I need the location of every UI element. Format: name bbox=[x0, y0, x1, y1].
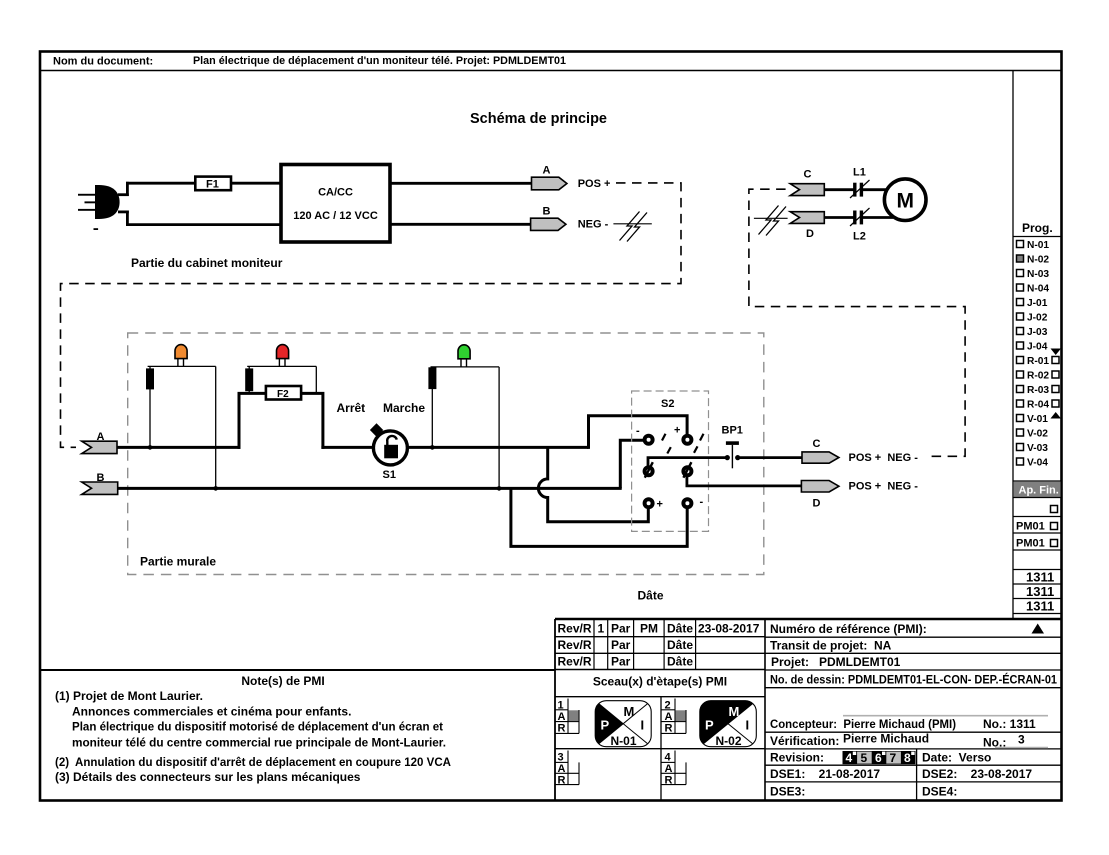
svg-text:B: B bbox=[543, 206, 551, 218]
right title block rows bbox=[765, 622, 1061, 800]
drawing title bbox=[470, 111, 607, 127]
svg-text:M: M bbox=[624, 704, 635, 719]
Prog checklist rows bbox=[1017, 240, 1062, 469]
wire CA/CC to connector B bbox=[390, 223, 531, 226]
svg-text:R-02: R-02 bbox=[1027, 371, 1049, 382]
svg-text:120 AC / 12 VCC: 120 AC / 12 VCC bbox=[293, 210, 378, 222]
svg-text:N-01: N-01 bbox=[1027, 240, 1049, 251]
svg-text:23-08-2017: 23-08-2017 bbox=[698, 622, 760, 636]
svg-text:BP1: BP1 bbox=[722, 425, 743, 437]
svg-text:Rev/R: Rev/R bbox=[558, 622, 592, 636]
Prog. side column bbox=[1013, 71, 1061, 620]
Ap. Fin. cell bbox=[1013, 481, 1061, 498]
svg-text:Nom du document:: Nom du document: bbox=[53, 56, 153, 68]
svg-text:V-02: V-02 bbox=[1027, 429, 1048, 440]
seal 2 mini grid bbox=[661, 699, 686, 735]
svg-text:J-02: J-02 bbox=[1027, 313, 1048, 324]
svg-text:D: D bbox=[813, 498, 821, 510]
svg-text:DSE4:: DSE4: bbox=[922, 785, 957, 799]
svg-text:F2: F2 bbox=[277, 389, 289, 400]
wire A line segment 1 bbox=[117, 446, 240, 449]
svg-text:M: M bbox=[896, 190, 914, 213]
cabinet cable dashed outline bbox=[61, 183, 682, 447]
connector D (female, motor side) bbox=[790, 212, 824, 240]
svg-text:N-03: N-03 bbox=[1027, 269, 1049, 280]
power supply U1 CA/CC bbox=[281, 165, 390, 243]
svg-text:V-01: V-01 bbox=[1027, 414, 1048, 425]
connector B (female, wall input) bbox=[82, 472, 118, 494]
LED DEL3 green dome bbox=[458, 345, 470, 367]
svg-text:7: 7 bbox=[890, 751, 897, 765]
svg-text:POS + NEG -: POS + NEG - bbox=[849, 452, 919, 464]
svg-text:Dâte: Dâte bbox=[638, 589, 664, 603]
svg-text:Partie murale: Partie murale bbox=[140, 555, 216, 569]
LED DEL2 red dome bbox=[277, 345, 289, 367]
connector A (male) bbox=[532, 165, 611, 190]
connector A (female, wall input) bbox=[82, 431, 117, 454]
svg-text:PM01: PM01 bbox=[1016, 521, 1045, 533]
svg-text:R-03: R-03 bbox=[1027, 385, 1049, 396]
svg-text:4: 4 bbox=[665, 752, 672, 764]
svg-text:J-01: J-01 bbox=[1027, 298, 1048, 309]
sceau section header bbox=[555, 675, 765, 801]
wire D to L2 bbox=[824, 216, 854, 219]
svg-text:D: D bbox=[806, 228, 814, 240]
resistor R3 (green LED) bbox=[428, 367, 436, 389]
svg-text:1: 1 bbox=[598, 622, 605, 636]
svg-text:Annonces commerciales et ciném: Annonces commerciales et cinéma pour enf… bbox=[72, 705, 351, 719]
svg-text:-: - bbox=[700, 496, 704, 508]
svg-text:Arrêt: Arrêt bbox=[337, 401, 366, 415]
switch S1 labels bbox=[337, 401, 426, 415]
wire B riser to S2 minus terminal bbox=[620, 440, 644, 488]
connector C (male, output) bbox=[802, 438, 918, 464]
bottom title block dividers bbox=[40, 619, 1061, 800]
svg-text:A: A bbox=[543, 165, 551, 177]
switch S1 (keylock) bbox=[370, 423, 408, 481]
svg-text:Vérification:: Vérification: bbox=[770, 734, 839, 748]
svg-text:Ap. Fin.: Ap. Fin. bbox=[1019, 485, 1059, 497]
seal 3 mini grid bbox=[555, 751, 579, 787]
svg-text:PM: PM bbox=[640, 622, 658, 636]
svg-text:R: R bbox=[558, 723, 566, 735]
svg-text:R-01: R-01 bbox=[1027, 356, 1049, 367]
svg-text:4: 4 bbox=[846, 751, 853, 765]
wall section dashed outline (Partie murale) bbox=[128, 333, 764, 575]
S2 movable levers bbox=[645, 462, 692, 478]
svg-text:1311: 1311 bbox=[1026, 584, 1054, 599]
svg-text:Pierre Michaud: Pierre Michaud bbox=[843, 732, 929, 746]
svg-text:Dâte: Dâte bbox=[667, 655, 693, 669]
svg-text:Revision:: Revision: bbox=[770, 751, 824, 765]
wire break symbol on D line bbox=[754, 206, 788, 236]
svg-text:Par: Par bbox=[611, 638, 631, 652]
svg-text:CA/CC: CA/CC bbox=[318, 187, 353, 199]
svg-text:No.: 1311: No.: 1311 bbox=[983, 717, 1036, 731]
svg-text:N-02: N-02 bbox=[716, 734, 742, 748]
svg-text:NEG -: NEG - bbox=[578, 219, 609, 231]
svg-text:Date: Verso: Date: Verso bbox=[922, 751, 991, 765]
svg-text:S2: S2 bbox=[661, 398, 674, 410]
svg-text:V-03: V-03 bbox=[1027, 443, 1048, 454]
AC plug P1 bbox=[78, 185, 120, 230]
date label bbox=[638, 589, 664, 603]
svg-text:P: P bbox=[705, 718, 714, 733]
seal stamp N-02 bbox=[700, 701, 757, 748]
wire plug to CA/CC (bottom) bbox=[118, 211, 281, 227]
svg-text:moniteur télé du centre commer: moniteur télé du centre commercial rue p… bbox=[72, 736, 446, 750]
S2 middle-right contact wire to D output bbox=[687, 477, 802, 486]
svg-text:J-03: J-03 bbox=[1027, 327, 1048, 338]
wire break symbol on NEG bbox=[613, 212, 651, 242]
svg-text:N-01: N-01 bbox=[611, 734, 637, 748]
wire L1 to motor bbox=[863, 188, 891, 191]
wire plug to F1 (top) bbox=[118, 182, 196, 196]
svg-text:A: A bbox=[97, 431, 105, 443]
approval rows bbox=[1013, 506, 1061, 614]
wire A branch down with hop over B bbox=[538, 447, 648, 521]
svg-text:C: C bbox=[804, 169, 812, 181]
LED DEL3 (green) network bbox=[430, 367, 501, 491]
svg-text:POS +: POS + bbox=[578, 178, 611, 190]
wire B branch to S2 bottom-right bbox=[511, 488, 687, 546]
S2 terminals bbox=[645, 436, 692, 508]
wire B line bbox=[118, 487, 622, 490]
wire F1 to CA/CC bbox=[231, 182, 281, 185]
document title bar text bbox=[53, 55, 566, 68]
svg-text:B: B bbox=[97, 472, 105, 484]
connector B (male) bbox=[531, 206, 609, 231]
svg-text:Prog.: Prog. bbox=[1022, 221, 1053, 235]
fuse F1 bbox=[195, 177, 231, 191]
svg-text:6: 6 bbox=[875, 751, 882, 765]
svg-text:Note(s) de PMI: Note(s) de PMI bbox=[241, 674, 324, 688]
svg-text:Schéma de principe: Schéma de principe bbox=[470, 111, 607, 127]
svg-text:(1) Projet de Mont Laurier.: (1) Projet de Mont Laurier. bbox=[55, 689, 203, 703]
svg-text:M: M bbox=[729, 704, 740, 719]
connector C (female, motor side) bbox=[790, 169, 824, 196]
LED DEL1 (orange) network bbox=[148, 366, 218, 490]
wire A line segment 2 through S1 bbox=[321, 446, 588, 449]
svg-text:DSE2: 23-08-2017: DSE2: 23-08-2017 bbox=[922, 767, 1032, 781]
wire C to L1 bbox=[824, 188, 854, 191]
svg-text:S1: S1 bbox=[383, 469, 396, 481]
svg-text:Par: Par bbox=[611, 622, 631, 636]
svg-text:-: - bbox=[636, 425, 640, 437]
resistor R1 (orange LED) bbox=[146, 368, 154, 389]
svg-text:PM01: PM01 bbox=[1016, 538, 1045, 550]
svg-text:Sceau(x) d'ètape(s) PMI: Sceau(x) d'ètape(s) PMI bbox=[593, 675, 727, 689]
svg-text:L1: L1 bbox=[853, 167, 866, 179]
svg-text:Par: Par bbox=[611, 655, 631, 669]
svg-text:DSE1: 21-08-2017: DSE1: 21-08-2017 bbox=[770, 767, 880, 781]
wire L2 to motor bbox=[863, 216, 893, 219]
svg-text:Rev/R: Rev/R bbox=[558, 655, 592, 669]
svg-text:P: P bbox=[601, 718, 610, 733]
svg-text:Dâte: Dâte bbox=[667, 622, 693, 636]
svg-text:Partie du cabinet moniteur: Partie du cabinet moniteur bbox=[131, 256, 283, 270]
wire riser to F2 bbox=[239, 393, 266, 449]
svg-text:3: 3 bbox=[558, 752, 564, 764]
motor cable dashed outline bbox=[749, 189, 965, 456]
svg-text:8: 8 bbox=[904, 751, 911, 765]
svg-text:L2: L2 bbox=[853, 231, 866, 243]
svg-text:Marche: Marche bbox=[383, 401, 425, 415]
S2 polarity signs bbox=[636, 425, 704, 511]
svg-text:Plan électrique du dispositif: Plan électrique du dispositif motorisé d… bbox=[72, 720, 443, 734]
fuse F2 bbox=[266, 386, 301, 400]
LED DEL2 (red) network bbox=[247, 366, 316, 393]
S2 middle-left contact wire to BP1 bbox=[648, 458, 726, 466]
svg-text:No. de dessin: PDMLDEMT01-EL-C: No. de dessin: PDMLDEMT01-EL-CON- DEP.-É… bbox=[770, 672, 1057, 687]
motor M bbox=[884, 179, 926, 221]
svg-text:N-04: N-04 bbox=[1027, 284, 1049, 295]
svg-text:DSE3:: DSE3: bbox=[770, 785, 805, 799]
S2 contact tick marks bbox=[662, 434, 704, 454]
connector D (male, output) bbox=[801, 481, 918, 510]
svg-text:R: R bbox=[665, 723, 673, 735]
notes box bbox=[55, 674, 451, 784]
svg-text:+: + bbox=[657, 499, 663, 511]
LED DEL1 orange dome bbox=[175, 345, 187, 367]
wire A line to S2 plus terminal bbox=[589, 416, 688, 449]
svg-text:3: 3 bbox=[1018, 733, 1025, 747]
svg-text:Dâte: Dâte bbox=[667, 638, 693, 652]
svg-text:Concepteur: Pierre Michaud (P: Concepteur: Pierre Michaud (PMI) bbox=[770, 717, 956, 731]
svg-text:I: I bbox=[746, 718, 750, 733]
svg-text:Projet: PDMLDEMT01: Projet: PDMLDEMT01 bbox=[771, 655, 901, 669]
push button BP1 bbox=[722, 425, 803, 469]
svg-text:+: + bbox=[674, 425, 680, 437]
svg-text:I: I bbox=[641, 718, 645, 733]
inductor L1 bbox=[850, 167, 870, 199]
svg-text:V-04: V-04 bbox=[1027, 458, 1048, 469]
seal stamp N-01 bbox=[595, 701, 651, 748]
svg-text:J-04: J-04 bbox=[1027, 342, 1048, 353]
svg-text:(2) Annulation du dispositif: (2) Annulation du dispositif d'arrêt de … bbox=[55, 755, 451, 769]
svg-text:F1: F1 bbox=[206, 179, 219, 191]
svg-text:1311: 1311 bbox=[1026, 599, 1054, 614]
revision table bbox=[555, 619, 765, 670]
svg-text:1311: 1311 bbox=[1026, 570, 1054, 585]
svg-text:Plan électrique de déplacement: Plan électrique de déplacement d'un moni… bbox=[193, 55, 566, 67]
svg-text:N-02: N-02 bbox=[1027, 255, 1049, 266]
svg-text:Rev/R: Rev/R bbox=[558, 638, 592, 652]
svg-text:R-04: R-04 bbox=[1027, 400, 1049, 411]
svg-text:POS + NEG -: POS + NEG - bbox=[849, 481, 919, 493]
switch S2 outline bbox=[632, 391, 709, 531]
resistor R2 (red LED) bbox=[245, 368, 253, 391]
svg-text:Numéro de référence (PMI):: Numéro de référence (PMI): bbox=[770, 622, 927, 636]
svg-text:(3) Détails des connecteurs su: (3) Détails des connecteurs sur les plan… bbox=[55, 770, 361, 784]
inductor L2 bbox=[850, 208, 870, 243]
svg-text:Transit de projet: NA: Transit de projet: NA bbox=[770, 639, 892, 653]
wire F2 down to A line bbox=[301, 393, 323, 449]
svg-text:5: 5 bbox=[861, 751, 868, 765]
seal 1 mini grid bbox=[555, 699, 579, 735]
seal 4 mini grid bbox=[661, 751, 686, 787]
wire CA/CC to connector A bbox=[390, 182, 532, 185]
svg-text:C: C bbox=[813, 438, 821, 450]
